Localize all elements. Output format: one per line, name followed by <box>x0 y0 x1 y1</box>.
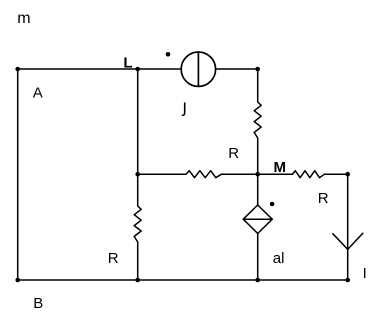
current arrow I <box>333 233 363 249</box>
current source U1 plate line <box>197 52 199 86</box>
resistor R (bottom-left, vertical) <box>134 174 141 280</box>
polarity dot at source al <box>270 202 275 207</box>
svg-text:m: m <box>17 10 30 27</box>
svg-text:R: R <box>318 190 329 207</box>
svg-text:al: al <box>273 250 285 267</box>
node dot top-right <box>255 67 260 72</box>
wire bottom <box>18 279 348 281</box>
wire right rail <box>347 174 349 280</box>
node dot mid-right corner <box>345 172 350 177</box>
current source U1 circle <box>181 52 215 86</box>
node dot bottom right <box>345 278 350 283</box>
svg-text:R: R <box>108 250 119 267</box>
dependent source al bar <box>243 218 272 220</box>
wire mid horizontal left <box>138 173 186 175</box>
svg-text:A: A <box>33 85 43 102</box>
node dot L <box>135 67 140 72</box>
svg-text:B: B <box>33 295 43 312</box>
node dot A corner <box>15 67 20 72</box>
wire resistor to right corner <box>325 173 348 175</box>
label J <box>183 103 185 115</box>
svg-text:L: L <box>123 55 132 72</box>
wire M to right resistor <box>258 173 293 175</box>
wire M to dependent source <box>257 174 259 205</box>
svg-text:R: R <box>228 145 239 162</box>
node dot bottom mid <box>135 278 140 283</box>
svg-text:M: M <box>274 159 287 176</box>
wire source J to node <box>216 68 258 70</box>
wire L to source J <box>138 68 182 70</box>
dependent source al diamond <box>243 205 272 234</box>
resistor R (middle, horizontal) <box>186 171 222 178</box>
svg-text:I: I <box>363 265 367 282</box>
node dot B corner <box>15 278 20 283</box>
wire mid rail upper <box>137 69 139 174</box>
node dot M <box>255 172 260 177</box>
resistor R (top-right, vertical) <box>254 69 261 174</box>
wire left rail <box>17 69 19 280</box>
wire resistor to M <box>222 173 258 175</box>
resistor R (right, horizontal) <box>292 171 324 178</box>
wire dependent source to bottom <box>257 234 259 281</box>
node dot mid-left junction <box>135 172 140 177</box>
wire top-left A-L <box>18 68 138 70</box>
polarity dot at source J <box>166 52 171 57</box>
node dot bottom diamond <box>255 278 260 283</box>
